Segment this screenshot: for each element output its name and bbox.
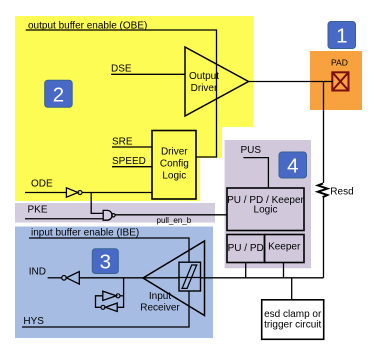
region: PKE strip (lavender) [15,203,215,223]
callout box 3 [92,249,118,274]
svg-text:Resd: Resd [330,186,353,197]
region: pull/keeper block (lavender) [225,140,311,268]
callout box 1 [328,22,356,49]
svg-text:Output: Output [189,71,219,82]
wire: HYS to schmitt trigger [22,291,189,327]
block: PU / PD [227,235,265,263]
wire: OBE to output driver enable [26,30,217,157]
wire: through schmitt trigger [179,277,201,279]
svg-text:3: 3 [100,251,111,274]
wire: driver output to PAD [249,81,334,83]
region: output buffer enable (yellow) [15,16,253,201]
svg-text:PKE: PKE [28,205,48,216]
wire: receiver out to inverter [79,277,143,279]
wire: ODE input [25,192,66,194]
svg-text:IND: IND [29,267,46,278]
wire: SRE [112,146,152,148]
callout box 2 [45,80,72,107]
block: Driver Config Logic [152,131,196,200]
svg-text:4: 4 [287,154,298,177]
svg-text:pull_en_b: pull_en_b [157,216,192,225]
wire: pull_en_b [115,214,227,216]
svg-text:2: 2 [53,83,64,106]
wire: DSE to driver [111,73,185,75]
op-amp U1 output driver triangle [185,47,249,116]
svg-text:Driver: Driver [191,83,218,94]
svg-text:Driver: Driver [161,147,188,158]
svg-text:Receiver: Receiver [140,303,180,314]
wire: PKE to NAND [25,218,103,220]
svg-text:HYS: HYS [23,316,44,327]
wire: PUS to logic [243,158,268,188]
wire: Keeper to pad net [283,263,285,278]
wire: pad net horizontal [201,277,324,279]
svg-text:Keeper: Keeper [268,242,301,253]
keeper latch: bottom inverter [105,303,117,311]
block: PU / PD / Keeper Logic [227,188,304,231]
svg-text:SRE: SRE [112,137,133,148]
svg-text:DSE: DSE [111,64,132,75]
PAD cell (orange) [310,51,362,110]
wire: esd tap [291,278,293,300]
NAND gate [103,210,112,220]
svg-text:Config: Config [160,159,189,170]
block: esd clamp or trigger circuit [262,300,324,340]
inverter on ODE [66,188,78,197]
svg-text:1: 1 [336,25,347,48]
inverter to IND [62,276,67,281]
pad symbol (box with X) [332,72,348,90]
resistor Resd [318,183,328,197]
wire: IBE to receiver enable [29,238,189,262]
svg-text:esd clamp or: esd clamp or [264,309,322,320]
svg-text:trigger circuit: trigger circuit [264,320,321,331]
svg-text:SPEED: SPEED [112,156,146,167]
svg-text:PUS: PUS [241,145,262,156]
svg-text:input buffer enable (IBE): input buffer enable (IBE) [31,228,139,239]
callout box 4 [279,152,307,178]
schmitt trigger box [179,262,201,291]
wire: pad vertical to resistor [323,82,325,184]
keeper latch: wire junction down [117,278,123,308]
wire: ODE_b to config logic [82,192,152,194]
region: input buffer enable (blue) [15,227,213,339]
op-amp U2 input receiver triangle [143,241,205,316]
wire: SPEED [112,166,152,168]
hysteresis glyph [181,265,197,288]
svg-text:Input: Input [149,291,171,302]
svg-text:ODE: ODE [31,179,53,190]
svg-text:Logic: Logic [254,205,278,216]
wire: PU/PD to pad net [245,263,247,278]
keeper latch: feedback loop wires [96,296,103,308]
block: Keeper [265,235,305,263]
wire: IND out [48,277,62,279]
svg-text:Logic: Logic [162,170,186,181]
keeper latch: top inverter [103,291,117,300]
svg-text:PAD: PAD [331,58,348,68]
wire: ODE_b branch down to NAND [91,193,103,214]
svg-text:PU / PD: PU / PD [228,243,264,254]
wire: receiver internal to pad net [143,277,179,279]
wire: resistor to pad net [323,196,325,278]
